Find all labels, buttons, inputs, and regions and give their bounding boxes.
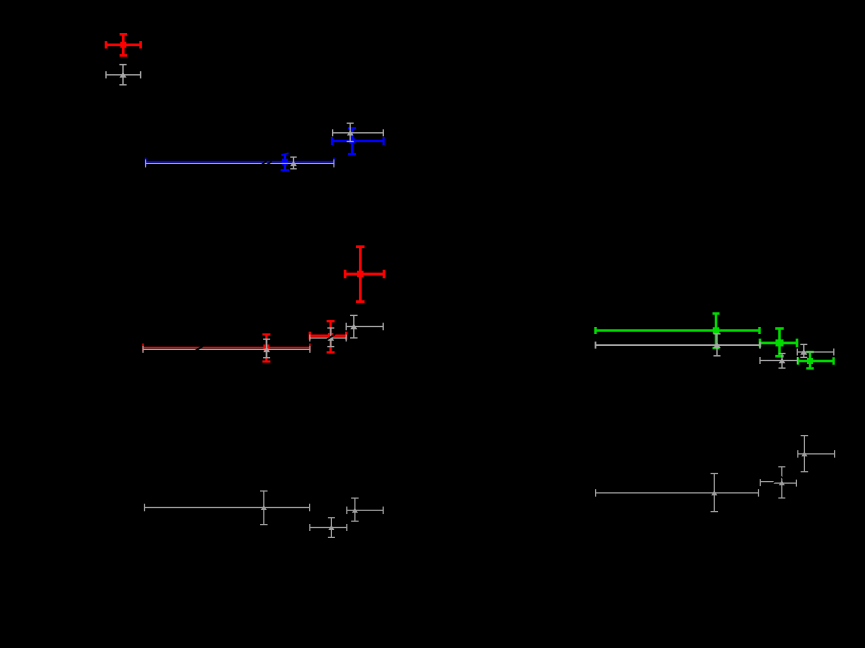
axis-break slash on blue long bar (second)	[267, 161, 272, 165]
data point D2g gray errorbar	[760, 354, 798, 369]
data point C2 red errorbar	[310, 321, 346, 352]
data point C1g gray long errorbar	[143, 339, 310, 358]
data point F1 gray long errorbar	[596, 474, 759, 512]
data point D1 green long errorbar	[596, 314, 760, 349]
data point D2 green errorbar	[760, 329, 797, 357]
axis-break slash on gray F2 horizontal bar	[771, 481, 775, 485]
data point F3 gray errorbar	[798, 436, 835, 472]
data point E1 gray long errorbar	[145, 491, 310, 525]
data point E2 gray errorbar	[310, 518, 347, 538]
axis-break slash on blue long bar (first)	[262, 161, 267, 165]
axis-break slash on red long bar	[195, 346, 202, 351]
data point A1 red errorbar	[106, 34, 141, 55]
axis-break slash on gray F2 vertical bar	[780, 476, 783, 479]
data point B2 blue errorbar	[332, 128, 384, 154]
data point D3g gray errorbar	[797, 344, 834, 357]
data point C3 gray errorbar	[346, 315, 383, 338]
data point B1 blue long errorbar	[146, 153, 334, 170]
data point E3 gray errorbar	[347, 498, 383, 521]
data point A2 gray errorbar	[106, 65, 141, 85]
data point C0 red isolated errorbar	[345, 247, 384, 302]
data point B1g gray long errorbar	[146, 157, 334, 169]
data point B2g gray errorbar	[333, 123, 384, 141]
data point C1 red long errorbar	[143, 334, 310, 361]
axis-break slash on red C2 marker	[326, 334, 335, 340]
data point C2g gray errorbar	[310, 328, 346, 347]
data point D1g gray long errorbar	[596, 334, 761, 356]
data point F2 gray errorbar	[760, 467, 796, 498]
data point D3 green errorbar	[798, 352, 834, 368]
